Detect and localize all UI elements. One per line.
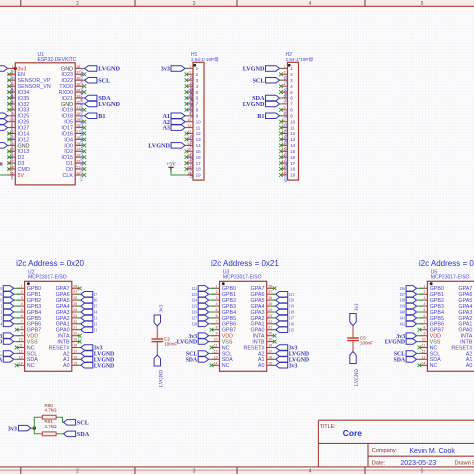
svg-text:SCL: SCL (77, 419, 89, 426)
net label I17 (U3 right) (271, 315, 295, 321)
svg-text:SCL: SCL (252, 77, 264, 84)
svg-text:1: 1 (424, 284, 426, 288)
svg-text:7: 7 (424, 320, 426, 324)
svg-text:i2c Address = 0x20: i2c Address = 0x20 (16, 259, 84, 268)
svg-text:13: 13 (422, 355, 426, 359)
svg-text:27: 27 (76, 130, 80, 134)
net label SCL (U1 right) (83, 77, 110, 84)
svg-text:4.7kΩ: 4.7kΩ (45, 408, 58, 413)
net label SDA (U2 left) (0, 357, 21, 364)
svg-text:5: 5 (21, 308, 23, 312)
svg-text:14: 14 (187, 142, 191, 146)
svg-text:23: 23 (268, 314, 272, 318)
svg-text:18: 18 (73, 344, 77, 348)
svg-text:19: 19 (73, 338, 77, 342)
svg-text:LVGND: LVGND (0, 340, 2, 346)
svg-text:11: 11 (290, 125, 295, 130)
svg-text:I36: I36 (400, 286, 406, 291)
svg-text:12: 12 (214, 349, 218, 353)
svg-text:17: 17 (196, 161, 202, 166)
svg-text:I13: I13 (0, 316, 2, 321)
svg-text:9: 9 (290, 114, 293, 119)
net label SDA (H2 pin 6) (252, 95, 282, 102)
svg-text:Core: Core (343, 428, 362, 438)
svg-text:I6: I6 (94, 298, 98, 303)
svg-text:3: 3 (193, 1, 196, 7)
svg-text:I16: I16 (289, 321, 295, 326)
wire C2 top (156, 326, 158, 338)
svg-text:11: 11 (196, 125, 201, 130)
svg-text:9: 9 (189, 112, 191, 116)
net label LVGND (U3 right) (271, 357, 309, 364)
svg-text:14: 14 (19, 361, 23, 365)
svg-text:6: 6 (216, 314, 218, 318)
svg-text:4: 4 (21, 302, 23, 306)
svg-text:25: 25 (268, 302, 272, 306)
company row (372, 448, 456, 455)
junction at U1 pin 1 (14, 67, 17, 70)
net label 3v3 (C5 top) (350, 303, 360, 326)
svg-text:6: 6 (284, 94, 286, 98)
date row (372, 460, 474, 467)
svg-text:SDA: SDA (186, 357, 198, 363)
junction node (33, 426, 37, 430)
svg-text:16: 16 (268, 355, 272, 359)
svg-text:31: 31 (76, 106, 80, 110)
svg-text:17: 17 (268, 349, 272, 353)
svg-text:Company:: Company: (372, 448, 398, 454)
IO expander U2 MCP23017-E/SO body (25, 269, 72, 371)
net label I40 (U5 left) (400, 309, 424, 315)
wire C5 top (352, 326, 354, 338)
capacitor C5 (347, 336, 373, 346)
svg-text:10: 10 (422, 338, 426, 342)
net label SCL (U5 left) (394, 351, 424, 358)
svg-text:I17: I17 (289, 316, 295, 321)
svg-text:16: 16 (196, 155, 202, 160)
net label I12 (U2 left) (0, 309, 21, 315)
net label IO26 (U1 left, clipped) (0, 119, 8, 125)
svg-text:I12: I12 (0, 310, 2, 315)
net label 3v3 (U3 right) (271, 345, 298, 352)
svg-text:16: 16 (290, 155, 296, 160)
connector H2 2.54-1*19P header (279, 52, 313, 183)
wire junction up to R80 (34, 417, 42, 428)
svg-text:11: 11 (187, 124, 191, 128)
svg-text:6: 6 (12, 94, 14, 98)
net label I10 (U2 left) (0, 297, 21, 303)
svg-text:11: 11 (214, 344, 218, 348)
svg-text:4: 4 (309, 1, 312, 7)
svg-text:2: 2 (76, 468, 79, 474)
svg-text:SCL: SCL (98, 77, 110, 84)
svg-text:4: 4 (189, 83, 191, 87)
svg-text:3: 3 (12, 77, 14, 81)
svg-text:8: 8 (21, 326, 23, 330)
net label I21 (U3 right) (271, 292, 295, 298)
net label LVGND (U2 right) (76, 363, 114, 370)
svg-text:1: 1 (284, 65, 286, 69)
svg-text:15: 15 (290, 149, 296, 154)
net label 3v3 (C2 top) (154, 305, 164, 327)
svg-text:20: 20 (76, 171, 80, 175)
svg-text:10: 10 (187, 118, 191, 122)
svg-text:I21: I21 (289, 292, 295, 297)
wire +5V to U1 pin 19 (0, 171, 8, 175)
svg-text:NC: NC (27, 363, 35, 369)
wire C5 bottom (352, 341, 354, 351)
svg-text:2: 2 (424, 290, 426, 294)
svg-text:LVGND: LVGND (355, 369, 360, 386)
net label I24 (U3 left) (192, 297, 216, 303)
svg-text:7: 7 (284, 100, 286, 104)
svg-text:3v3: 3v3 (355, 303, 360, 311)
wire junction down to R81 (34, 428, 42, 434)
net label 3v3 (U1 left, clipped) (0, 66, 8, 72)
net label SDA (U1 right) (83, 95, 111, 102)
net label IO25 (U1 left, clipped) (0, 113, 8, 119)
svg-text:3: 3 (193, 468, 196, 474)
net label I27 (U3 left) (192, 315, 216, 321)
net label I37 (U5 left) (400, 292, 424, 298)
U2 left pins (15, 284, 25, 367)
svg-text:7: 7 (290, 102, 293, 107)
svg-text:LVGND: LVGND (385, 340, 405, 346)
net label I39 (U5 left) (400, 303, 424, 309)
svg-text:5: 5 (424, 308, 426, 312)
net label I2 (U2 right) (76, 321, 98, 327)
svg-text:36: 36 (76, 77, 80, 81)
svg-text:I25: I25 (192, 304, 198, 309)
svg-text:6: 6 (196, 96, 199, 101)
svg-text:NC: NC (222, 363, 230, 369)
net label LVGND (U3 left) (177, 339, 216, 346)
svg-text:14: 14 (10, 142, 14, 146)
module U1 ESP32-DEVKITC (15, 52, 76, 185)
svg-text:18: 18 (268, 344, 272, 348)
net label I7 (U2 right) (76, 292, 98, 298)
net label 3v3 (U2 right) (76, 345, 103, 352)
svg-text:1: 1 (216, 284, 218, 288)
net label I25 (U3 left) (192, 303, 216, 309)
svg-text:12: 12 (290, 131, 296, 136)
svg-text:SDA: SDA (393, 357, 405, 363)
svg-text:2: 2 (196, 72, 199, 77)
svg-text:24: 24 (76, 148, 80, 152)
net label LVGND (U2 left) (0, 339, 21, 346)
power flag +5V (166, 162, 176, 171)
svg-text:2: 2 (290, 72, 293, 77)
sheet border bottom band (0, 466, 474, 468)
svg-text:SDA: SDA (77, 431, 90, 438)
svg-text:5: 5 (284, 89, 286, 93)
net label LVGND (H1 pin 14) (148, 143, 187, 150)
svg-text:21: 21 (73, 326, 77, 330)
net label I16 (U3 right) (271, 321, 295, 327)
svg-text:37: 37 (76, 71, 80, 75)
net label 3v3 (pullups) (8, 425, 31, 432)
svg-text:3: 3 (21, 296, 23, 300)
U1 right pins (75, 65, 86, 182)
svg-text:1: 1 (196, 66, 199, 71)
net label I36 (U5 left) (400, 286, 424, 292)
svg-text:22: 22 (76, 160, 80, 164)
svg-text:LVGND: LVGND (243, 101, 265, 108)
svg-text:ESP32-DEVKITC: ESP32-DEVKITC (38, 57, 77, 63)
svg-text:I42: I42 (400, 321, 406, 326)
svg-text:10: 10 (196, 119, 202, 124)
svg-text:3: 3 (290, 78, 293, 83)
svg-text:3v3: 3v3 (8, 425, 17, 432)
svg-text:23: 23 (76, 154, 80, 158)
net label I6 (U2 right) (76, 297, 98, 303)
svg-text:I20: I20 (289, 298, 295, 303)
svg-text:9: 9 (12, 112, 14, 116)
svg-text:7: 7 (216, 320, 218, 324)
net label I4 (U2 right) (76, 309, 98, 315)
svg-text:5: 5 (189, 89, 191, 93)
net label 3v3 (U3 left) (188, 333, 215, 340)
net label SCL (U2 left) (0, 351, 21, 358)
net label SCL (U3 left) (186, 351, 216, 358)
svg-text:3v3: 3v3 (161, 66, 170, 73)
svg-text:i2c Address = 0x21: i2c Address = 0x21 (211, 259, 279, 268)
svg-text:I2: I2 (94, 321, 98, 326)
svg-text:MCP23017-E/SO: MCP23017-E/SO (431, 275, 470, 281)
svg-text:4.7kΩ: 4.7kΩ (45, 424, 58, 429)
wire R80 to SCL (56, 417, 63, 422)
svg-text:8: 8 (216, 326, 218, 330)
svg-text:LVGND: LVGND (98, 101, 120, 108)
svg-text:I10: I10 (0, 298, 2, 303)
svg-text:CLK: CLK (63, 173, 74, 179)
net label B1 (H2 pin 9) (257, 113, 282, 120)
svg-text:26: 26 (268, 296, 272, 300)
svg-text:12: 12 (19, 349, 23, 353)
svg-text:I27: I27 (192, 316, 198, 321)
svg-text:14: 14 (196, 143, 202, 148)
svg-text:33: 33 (76, 94, 80, 98)
U3 left pins (210, 284, 220, 367)
svg-text:8: 8 (196, 108, 199, 113)
svg-text:i2c Address = 0x22: i2c Address = 0x22 (419, 259, 474, 268)
svg-text:9: 9 (216, 332, 218, 336)
net label I1 (U2 right) (76, 327, 98, 333)
net label 3v3 (U2 left) (0, 333, 21, 340)
net label I19 (U3 right) (271, 303, 295, 309)
net label I41 (U5 left) (400, 315, 424, 321)
net label I11 (U2 left) (0, 303, 21, 309)
svg-text:1: 1 (12, 65, 14, 69)
svg-text:2: 2 (12, 71, 14, 75)
net label A3 (H1 pin 11) (162, 125, 187, 132)
svg-text:8: 8 (12, 106, 14, 110)
svg-text:+5V: +5V (166, 162, 176, 168)
svg-text:4: 4 (424, 302, 426, 306)
svg-text:13: 13 (19, 355, 23, 359)
svg-text:B1: B1 (257, 113, 264, 120)
svg-text:9: 9 (21, 332, 23, 336)
net label I18 (U3 right) (271, 309, 295, 315)
svg-text:1: 1 (189, 65, 191, 69)
svg-text:17: 17 (73, 349, 77, 353)
svg-text:MCP23017-E/SO: MCP23017-E/SO (28, 275, 67, 281)
svg-text:6: 6 (424, 314, 426, 318)
svg-text:MCP23017-E/SO: MCP23017-E/SO (223, 275, 262, 281)
wire R81 to SDA (56, 433, 63, 435)
svg-text:11: 11 (19, 344, 23, 348)
capacitor C2 (152, 337, 178, 347)
svg-text:7: 7 (189, 100, 191, 104)
svg-text:I41: I41 (400, 316, 406, 321)
svg-text:CLK: CLK (284, 176, 288, 183)
net label LVGND (U2 right) (76, 357, 114, 364)
net label 3v3 (U3 right) (271, 363, 298, 370)
svg-text:28: 28 (268, 284, 272, 288)
svg-text:A0: A0 (466, 363, 473, 369)
svg-text:8: 8 (284, 106, 286, 110)
svg-text:12: 12 (422, 349, 426, 353)
net label I22 (U3 left) (192, 286, 216, 292)
svg-text:19: 19 (10, 171, 14, 175)
svg-text:LVGND: LVGND (148, 143, 170, 150)
svg-text:30: 30 (76, 112, 80, 116)
svg-text:14: 14 (290, 143, 296, 148)
svg-text:10: 10 (19, 338, 23, 342)
svg-text:8: 8 (424, 326, 426, 330)
svg-text:Drawn By:: Drawn By: (455, 460, 474, 466)
svg-text:27: 27 (73, 290, 77, 294)
svg-text:5: 5 (196, 90, 199, 95)
svg-text:3v3: 3v3 (289, 363, 298, 369)
net label I9 (U2 left) (0, 292, 21, 298)
svg-text:28: 28 (73, 284, 77, 288)
net label I15 (U3 right) (271, 327, 295, 333)
svg-text:5: 5 (421, 468, 424, 474)
svg-text:2: 2 (21, 290, 23, 294)
net label LVGND (U5 left) (385, 339, 424, 346)
svg-text:29: 29 (76, 118, 80, 122)
svg-text:4: 4 (284, 83, 286, 87)
title text (320, 424, 362, 438)
svg-text:B1: B1 (98, 113, 105, 120)
net label I28 (U3 left) (192, 321, 216, 327)
svg-text:I37: I37 (400, 292, 406, 297)
svg-text:A0: A0 (258, 363, 265, 369)
svg-text:LVGND: LVGND (243, 66, 265, 73)
resistor R81 4.7k (42, 419, 57, 435)
svg-text:4: 4 (216, 302, 218, 306)
power flag +5V (U1 5V pin, clipped) (0, 162, 2, 171)
wire C2 bottom (156, 342, 158, 355)
svg-text:5V: 5V (10, 176, 14, 180)
net label SCL (pullup) (64, 419, 89, 426)
svg-text:3: 3 (216, 296, 218, 300)
svg-text:I19: I19 (289, 304, 295, 309)
svg-text:I24: I24 (192, 298, 198, 303)
svg-text:5: 5 (12, 89, 14, 93)
svg-text:22: 22 (73, 320, 77, 324)
svg-text:20: 20 (73, 332, 77, 336)
svg-text:2: 2 (284, 71, 286, 75)
title block frame (318, 420, 474, 467)
net label IO27 (U1 left, clipped) (0, 125, 8, 130)
net label SDA (U3 left) (186, 357, 216, 364)
svg-text:3v3: 3v3 (159, 305, 164, 313)
svg-text:17: 17 (290, 161, 296, 166)
svg-text:I38: I38 (400, 298, 406, 303)
svg-text:2023-05-23: 2023-05-23 (400, 460, 436, 467)
svg-text:9: 9 (424, 332, 426, 336)
svg-text:Kevin M. Cook: Kevin M. Cook (409, 448, 455, 455)
net label LVGND (U2 right) (76, 351, 114, 358)
svg-text:6: 6 (21, 314, 23, 318)
svg-text:19: 19 (196, 173, 202, 178)
svg-text:NC: NC (430, 363, 438, 369)
svg-text:3: 3 (196, 78, 199, 83)
sheet border top band (0, 0, 474, 6)
svg-text:100nF: 100nF (360, 340, 373, 345)
svg-text:I18: I18 (289, 310, 295, 315)
svg-text:13: 13 (196, 137, 202, 142)
connector H1 2.54-1*19P header (185, 52, 219, 180)
svg-text:I1: I1 (94, 327, 98, 332)
svg-text:21: 21 (268, 326, 272, 330)
svg-text:8: 8 (189, 106, 191, 110)
IO expander U5 MCP23017-E/SO body (427, 269, 474, 371)
svg-text:15: 15 (73, 361, 77, 365)
wire 3v3 to junction (31, 427, 35, 429)
svg-text:A3: A3 (162, 125, 170, 132)
net label LVGND (U1 left, clipped) (0, 143, 8, 149)
svg-text:4: 4 (309, 468, 312, 474)
net label SCL (H2 pin 3) (252, 77, 282, 84)
net label 3v3 (U5 left) (396, 333, 423, 340)
svg-text:I39: I39 (400, 304, 406, 309)
svg-text:I3: I3 (94, 316, 98, 321)
svg-text:7: 7 (12, 100, 14, 104)
net label I26 (U3 left) (192, 309, 216, 315)
svg-text:34: 34 (76, 89, 80, 93)
svg-text:38: 38 (76, 65, 80, 69)
svg-text:14: 14 (214, 361, 218, 365)
net label I38 (U5 left) (400, 297, 424, 303)
svg-text:I40: I40 (400, 310, 406, 315)
svg-text:9: 9 (284, 112, 286, 116)
net label A1 (H1 pin 9) (162, 113, 187, 120)
svg-text:4: 4 (290, 84, 293, 89)
svg-text:32: 32 (76, 100, 80, 104)
resistor R80 4.7k (42, 403, 57, 419)
U2 right pins (72, 284, 82, 365)
net label B1 (U1 right) (83, 113, 105, 120)
svg-text:I22: I22 (192, 286, 198, 291)
net label I3 (U2 right) (76, 315, 98, 321)
svg-text:A0: A0 (63, 363, 70, 369)
svg-text:25: 25 (73, 302, 77, 306)
svg-text:12: 12 (196, 131, 202, 136)
svg-text:1: 1 (290, 66, 293, 71)
svg-text:11: 11 (10, 124, 14, 128)
net label LVGND (U1 right) (83, 101, 120, 108)
svg-text:I11: I11 (0, 304, 2, 309)
svg-text:28: 28 (76, 124, 80, 128)
svg-text:24: 24 (73, 308, 77, 312)
net label I14 (U2 left) (0, 321, 21, 327)
svg-text:I7: I7 (94, 292, 98, 297)
net label I42 (U5 left) (400, 321, 424, 327)
svg-text:18: 18 (196, 167, 202, 172)
